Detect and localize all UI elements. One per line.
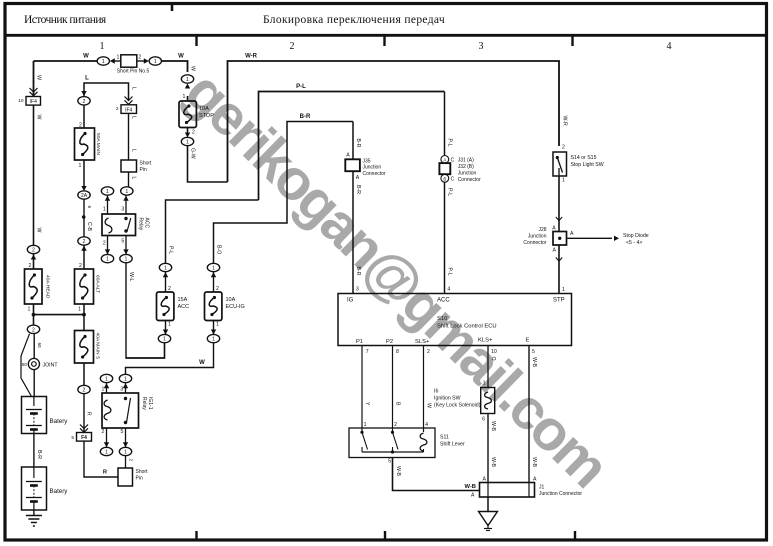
- wire SLS+ to shift lever: [423, 346, 425, 429]
- svg-text:1: 1: [364, 422, 367, 428]
- svg-text:1: 1: [102, 59, 105, 65]
- node oval 1 left of Short Pin No.5: [97, 57, 109, 65]
- column tick a: [195, 37, 197, 47]
- svg-text:W-R: W-R: [245, 54, 258, 60]
- wire oval2 to JOINT: [33, 334, 35, 397]
- svg-text:P-L: P-L: [447, 188, 453, 196]
- svg-text:L: L: [85, 76, 89, 82]
- svg-text:7: 7: [366, 349, 369, 355]
- svg-text:40A HEAD: 40A HEAD: [45, 275, 51, 299]
- svg-text:10: 10: [18, 98, 24, 104]
- node oval 2 above JOINT: [27, 325, 39, 333]
- wire W from ECU-IG fuse to IG1-1: [126, 343, 214, 375]
- fuse IF4 second: [121, 105, 137, 114]
- wire P-L to 15A ACC: [166, 200, 259, 263]
- svg-text:Pin: Pin: [140, 167, 147, 173]
- wire and arrow into oval above 10A STOP: [187, 96, 189, 101]
- svg-text:STOP: STOP: [199, 113, 214, 119]
- bottom tick b: [384, 531, 386, 541]
- svg-text:1: 1: [212, 266, 215, 272]
- svg-text:1: 1: [100, 41, 105, 52]
- node oval 1 above ACC relay pin 3: [121, 187, 133, 195]
- svg-text:O: O: [490, 357, 496, 361]
- pin 2 above 40A HEAD: [33, 254, 35, 269]
- fusible link 50A MAIN: [75, 128, 95, 160]
- svg-text:1: 1: [483, 381, 486, 387]
- short pin box lower: [118, 468, 133, 486]
- svg-text:3: 3: [121, 207, 124, 213]
- svg-text:4: 4: [425, 422, 428, 428]
- svg-text:P1: P1: [356, 339, 363, 345]
- svg-text:8: 8: [396, 349, 399, 355]
- svg-text:<5 - 4>: <5 - 4>: [626, 240, 642, 246]
- svg-text:1: 1: [183, 94, 186, 100]
- node oval 1 above IG1-1 pin 1: [100, 374, 112, 382]
- svg-text:2: 2: [32, 248, 35, 254]
- bottom tick c: [574, 531, 576, 541]
- svg-text:J31 (A): J31 (A): [458, 158, 474, 164]
- svg-text:W-B: W-B: [531, 457, 537, 468]
- svg-text:1: 1: [103, 207, 106, 213]
- relay ACC bottom pins: [107, 236, 109, 255]
- svg-text:J32 (B): J32 (B): [458, 164, 474, 170]
- wire E to J1: [528, 346, 530, 483]
- svg-text:2: 2: [394, 422, 397, 428]
- wire 40A HEAD to junction: [33, 304, 35, 315]
- svg-text:1: 1: [164, 266, 167, 272]
- svg-text:1: 1: [79, 163, 82, 169]
- node oval 2 above 60A ALT: [78, 237, 90, 245]
- svg-text:2: 2: [83, 239, 86, 245]
- node oval 2 above 40A HEAD: [27, 245, 39, 253]
- wire B-R between batteries: [33, 434, 35, 468]
- wire W-L from relay to 15A ACC: [126, 263, 165, 358]
- wire W IF4 to oval 2: [33, 105, 35, 245]
- svg-text:ECU-IG: ECU-IG: [226, 304, 245, 310]
- svg-text:Connector: Connector: [523, 240, 546, 246]
- svg-text:Блокировка переключения переда: Блокировка переключения передач: [263, 14, 445, 26]
- wire P1 to shift lever: [361, 346, 363, 429]
- svg-text:W-R: W-R: [562, 116, 568, 127]
- wire 40A MAIN S to oval 2: [83, 363, 85, 385]
- svg-text:1: 1: [562, 178, 565, 184]
- wire J35 to ECU IG pin: [352, 172, 354, 294]
- fuse IF4 left: [26, 97, 41, 106]
- svg-text:B-R: B-R: [355, 139, 361, 148]
- svg-text:Shift Lever: Shift Lever: [440, 442, 465, 448]
- svg-text:5: 5: [71, 435, 74, 441]
- svg-text:Junction Connector: Junction Connector: [539, 491, 582, 497]
- svg-text:Junction: Junction: [528, 234, 547, 240]
- header separator line: [4, 34, 767, 37]
- arrow into right oval: [137, 60, 144, 62]
- svg-text:Short: Short: [140, 161, 153, 167]
- node oval 1 below IG1-1 pin 5: [119, 447, 131, 455]
- svg-text:Источник питания: Источник питания: [24, 14, 107, 26]
- svg-text:F4: F4: [81, 435, 87, 441]
- svg-text:2: 2: [29, 263, 32, 269]
- node oval 1 below ACC relay pin 5: [120, 254, 132, 262]
- svg-text:B-R: B-R: [355, 267, 361, 276]
- wire W-B shift lever to J1: [393, 458, 480, 491]
- wire 10A STOP loop to W-R riser: [188, 146, 228, 182]
- svg-text:ACC: ACC: [437, 298, 450, 304]
- svg-text:W-L: W-L: [128, 272, 134, 282]
- svg-text:Ignition SW: Ignition SW: [434, 396, 461, 402]
- svg-text:W-B: W-B: [490, 457, 496, 468]
- svg-text:Connector: Connector: [363, 171, 386, 177]
- svg-text:1: 1: [102, 387, 105, 393]
- bottom tick a: [195, 531, 197, 541]
- svg-text:JOINT: JOINT: [43, 362, 59, 368]
- svg-text:P-L: P-L: [296, 84, 306, 90]
- svg-text:KLS+: KLS+: [478, 338, 493, 344]
- svg-text:2: 2: [562, 145, 565, 151]
- wire junction to 40A MAIN S: [83, 315, 85, 331]
- node oval 1 below 10A STOP: [181, 137, 193, 145]
- fusible link 40A MAIN S: [75, 331, 94, 364]
- svg-text:5: 5: [532, 349, 535, 355]
- svg-text:1: 1: [78, 307, 81, 313]
- short pin No.5 S box: [115, 60, 121, 62]
- wire 60A ALT to junction bus: [83, 304, 85, 315]
- svg-text:1: 1: [28, 307, 31, 313]
- wire W-R riser and top horizontal: [228, 61, 560, 182]
- switch S14 or S15 Stop Light SW: [553, 152, 567, 176]
- svg-text:6: 6: [87, 206, 92, 209]
- svg-text:1: 1: [154, 59, 157, 65]
- svg-text:P-L: P-L: [447, 268, 453, 276]
- junction bus horizontal: [34, 314, 85, 316]
- svg-text:1: 1: [106, 257, 109, 263]
- node oval 2 above 50A MAIN: [78, 97, 90, 105]
- svg-text:2: 2: [192, 130, 195, 136]
- svg-text:1: 1: [125, 257, 128, 263]
- svg-text:1: 1: [105, 450, 108, 456]
- wire with junction dot and C-B label: [83, 199, 85, 237]
- wire oval to F4 with chevron: [83, 394, 85, 433]
- svg-text:S14 or S15: S14 or S15: [571, 155, 597, 161]
- wire oval to lower Short Pin: [125, 456, 127, 468]
- wire stop light SW to J28: [558, 176, 560, 232]
- fusible link 60A ALT: [75, 269, 94, 304]
- column tick b: [383, 37, 385, 47]
- svg-text:P-L: P-L: [447, 139, 453, 147]
- svg-text:Batery: Batery: [50, 488, 69, 495]
- svg-text:1: 1: [125, 189, 128, 195]
- svg-text:(Key Lock Solenoid): (Key Lock Solenoid): [434, 403, 481, 409]
- svg-text:1: 1: [216, 322, 219, 328]
- svg-text:5: 5: [121, 429, 124, 435]
- svg-text:B-O: B-O: [215, 245, 221, 254]
- arrow into oval below 10A STOP: [187, 128, 189, 134]
- svg-text:2: 2: [138, 55, 141, 61]
- node oval 1 right of Short Pin No.5: [149, 57, 161, 65]
- svg-text:W: W: [83, 54, 89, 60]
- wire L IF4 to Short Pin: [128, 113, 130, 160]
- fusible link 40A HEAD: [25, 269, 43, 304]
- svg-text:40A MAIN S: 40A MAIN S: [95, 333, 101, 360]
- pin 2 above 50A MAIN: [83, 105, 85, 128]
- IG1-1 coil: [104, 400, 111, 420]
- svg-text:Shift Lock Control ECU: Shift Lock Control ECU: [437, 324, 497, 330]
- relay IG1-1 box: [102, 393, 139, 428]
- svg-text:10A: 10A: [199, 106, 209, 112]
- svg-text:E: E: [526, 338, 530, 344]
- svg-text:Relay: Relay: [138, 218, 144, 231]
- svg-text:2: 2: [102, 429, 105, 435]
- svg-text:W: W: [178, 54, 184, 60]
- svg-text:W-B: W-B: [490, 421, 496, 432]
- wire B-R riser from ECU-IG fuse: [214, 122, 354, 264]
- svg-text:50A MAIN: 50A MAIN: [95, 133, 101, 155]
- svg-text:L: L: [130, 116, 136, 119]
- ACC relay switch: [124, 217, 127, 220]
- svg-text:A: A: [443, 157, 446, 162]
- wire to stop diode with arrow: [567, 237, 613, 239]
- arrow into IF4 no2: [128, 97, 130, 100]
- svg-text:IG: IG: [347, 298, 354, 304]
- wire KLS+ to ignition switch: [487, 346, 489, 388]
- switch S11 Shift Lever box: [349, 428, 435, 458]
- arrow into oval below 15A ACC: [165, 321, 167, 335]
- svg-text:1: 1: [186, 140, 189, 146]
- svg-text:ACC: ACC: [178, 304, 190, 310]
- junction connector J35: [345, 159, 360, 171]
- svg-text:60A ALT: 60A ALT: [95, 275, 101, 293]
- top border tick: [171, 2, 174, 11]
- wire short pin to oval: [128, 172, 130, 187]
- junction connector J28: [553, 232, 567, 246]
- svg-text:B: B: [394, 402, 400, 406]
- joint connector JOINT: [28, 358, 39, 369]
- wire 15A ACC to W-L horizontal: [126, 343, 165, 358]
- svg-text:Short: Short: [136, 469, 149, 475]
- wire L top loop: [84, 83, 129, 97]
- svg-text:2: 2: [83, 388, 86, 394]
- pin 2 above 15A ACC: [165, 272, 167, 292]
- svg-text:J35: J35: [363, 159, 371, 165]
- node oval 2 above F4: [78, 385, 90, 393]
- svg-text:2: 2: [32, 327, 35, 333]
- svg-text:2: 2: [216, 286, 219, 292]
- node oval 1 below IG1-1 pin 2: [100, 447, 112, 455]
- svg-text:W-B: W-B: [465, 484, 476, 490]
- svg-text:B-R: B-R: [355, 185, 361, 194]
- svg-text:J1: J1: [539, 485, 545, 491]
- svg-text:L: L: [130, 87, 136, 90]
- svg-text:W-B: W-B: [531, 357, 537, 368]
- svg-text:W: W: [36, 228, 42, 233]
- node oval 1 below ACC relay pin 2: [101, 254, 113, 262]
- node oval 1 above 10A STOP: [181, 75, 193, 83]
- wire P-L horizontal: [259, 92, 445, 201]
- svg-text:B-R: B-R: [36, 450, 42, 459]
- junction connector J31 J32 circles: [441, 156, 449, 164]
- wire W to 10A STOP drop: [162, 61, 188, 72]
- svg-text:A: A: [533, 477, 537, 483]
- shift lever switch P1: [361, 428, 363, 432]
- svg-text:Junction: Junction: [363, 165, 382, 171]
- svg-text:1: 1: [117, 55, 120, 61]
- svg-text:IF4: IF4: [30, 99, 37, 105]
- wire B-R from corner down to J35: [352, 122, 354, 160]
- ECU S10 Shift Lock Control ECU box: [338, 294, 572, 346]
- wire J1 to ground: [487, 497, 489, 512]
- shift lever switch P2: [392, 428, 394, 432]
- node oval 1 above ACC relay pin 1: [101, 187, 113, 195]
- wire junction to oval 2: [33, 315, 35, 326]
- svg-text:1: 1: [124, 450, 127, 456]
- arrow into oval below ECU-IG fuse: [213, 321, 215, 335]
- svg-text:60: 60: [37, 343, 42, 349]
- node oval 1 below ECU-IG fuse: [207, 334, 219, 342]
- wire W top-left horizontal: [34, 60, 98, 62]
- node oval 1 below 15A ACC: [158, 334, 170, 342]
- svg-text:W: W: [36, 115, 42, 120]
- fuse F4: [77, 433, 92, 442]
- svg-text:SLS+: SLS+: [415, 339, 430, 345]
- svg-text:A: A: [356, 175, 360, 181]
- svg-text:C: C: [451, 176, 455, 182]
- svg-text:2: 2: [83, 99, 86, 105]
- svg-text:1: 1: [105, 377, 108, 383]
- ground symbol: [479, 512, 498, 526]
- wire J28 to ECU STP pin: [558, 245, 560, 294]
- svg-text:2: 2: [427, 349, 430, 355]
- svg-text:5: 5: [388, 459, 391, 465]
- svg-text:A: A: [483, 477, 487, 483]
- svg-text:W-B: W-B: [395, 466, 401, 477]
- svg-text:P-L: P-L: [167, 246, 173, 254]
- arrows into relay top ovals: [107, 195, 109, 214]
- diagonal wire battery to oval 2: [21, 334, 32, 397]
- svg-text:A: A: [552, 226, 556, 232]
- svg-text:Stop Diode: Stop Diode: [623, 233, 649, 239]
- svg-text:2: 2: [128, 459, 133, 462]
- svg-text:A: A: [346, 153, 350, 159]
- wire W-B solenoid to J1: [487, 414, 489, 483]
- pin 2 above ECU-IG fuse: [213, 272, 215, 292]
- short pin box: [121, 160, 137, 172]
- svg-text:Pin: Pin: [136, 476, 143, 482]
- svg-text:5: 5: [121, 239, 124, 245]
- node oval 1 above 15A ACC: [159, 263, 171, 271]
- fuse 15A ACC: [157, 292, 174, 321]
- svg-text:1: 1: [168, 322, 171, 328]
- svg-text:STP: STP: [553, 298, 565, 304]
- column tick c: [571, 37, 573, 47]
- svg-text:B: B: [443, 176, 446, 181]
- wire W down to IF4: [33, 92, 35, 97]
- junction connector J1: [480, 483, 535, 498]
- fuse 10A ECU-IG: [205, 292, 222, 321]
- svg-text:W: W: [425, 403, 431, 408]
- node oval 2A: [78, 191, 90, 199]
- svg-text:6: 6: [482, 417, 485, 423]
- svg-text:1: 1: [124, 377, 127, 383]
- node oval 1 above IG1-1 pin 3: [119, 374, 131, 382]
- svg-text:60: 60: [22, 362, 28, 367]
- svg-text:Junction: Junction: [458, 171, 477, 177]
- svg-text:R: R: [86, 412, 92, 416]
- svg-text:A: A: [570, 231, 574, 237]
- svg-text:3: 3: [479, 41, 484, 52]
- relay ACC Relay box: [102, 214, 136, 236]
- svg-text:2: 2: [79, 263, 82, 269]
- svg-text:1: 1: [212, 337, 215, 343]
- wire R from F4 to Short Pin: [84, 441, 118, 477]
- svg-text:1: 1: [562, 287, 565, 293]
- svg-text:L: L: [130, 149, 136, 152]
- svg-text:Y: Y: [364, 402, 370, 406]
- ground below battery: [33, 510, 35, 516]
- svg-text:Relay: Relay: [141, 397, 147, 410]
- svg-text:2: 2: [168, 286, 171, 292]
- svg-text:Batery: Batery: [50, 418, 69, 425]
- IG1-1 switch: [124, 397, 127, 400]
- shift lever internal rail: [362, 451, 424, 453]
- svg-text:B-R: B-R: [300, 114, 311, 120]
- svg-text:1: 1: [163, 337, 166, 343]
- arrows into IG1-1 from ovals: [106, 383, 108, 393]
- wire J32 to ECU ACC pin: [444, 182, 446, 293]
- fuse 10A STOP: [179, 101, 196, 128]
- svg-text:Short Pin No.5: Short Pin No.5: [117, 69, 150, 75]
- svg-text:P2: P2: [386, 339, 393, 345]
- wire corner down left column: [33, 61, 35, 92]
- svg-text:W: W: [189, 66, 195, 71]
- pin 2 above 60A ALT: [83, 245, 85, 269]
- svg-text:10A: 10A: [226, 297, 236, 303]
- wire 50A MAIN to oval 2A: [83, 160, 85, 187]
- svg-text:S10: S10: [437, 316, 447, 322]
- IG1-1 bottom pins: [106, 428, 108, 447]
- battery lower: [22, 467, 47, 510]
- ACC relay coil: [105, 218, 112, 233]
- svg-text:3: 3: [120, 387, 123, 393]
- svg-text:W: W: [199, 360, 205, 366]
- svg-text:A: A: [553, 248, 557, 254]
- wire P2 to shift lever: [392, 346, 394, 429]
- svg-text:2A: 2A: [81, 193, 88, 199]
- wire P-L down to J31: [444, 92, 446, 156]
- svg-text:IF4: IF4: [125, 108, 132, 114]
- arrow into oval 2 above 50A MAIN: [81, 91, 86, 96]
- svg-text:1: 1: [186, 77, 189, 83]
- svg-text:1: 1: [106, 189, 109, 195]
- svg-text:3: 3: [356, 287, 359, 293]
- svg-text:L: L: [130, 177, 136, 180]
- svg-text:I6: I6: [434, 389, 438, 395]
- svg-text:Stop Light SW: Stop Light SW: [571, 162, 604, 168]
- svg-text:2: 2: [290, 41, 295, 52]
- svg-text:Connector: Connector: [458, 177, 481, 183]
- svg-text:4: 4: [667, 41, 672, 52]
- battery upper: [22, 397, 47, 434]
- svg-text:10: 10: [491, 349, 497, 355]
- svg-text:4: 4: [447, 287, 450, 293]
- switch I6 Ignition SW Key Lock Solenoid: [481, 388, 495, 414]
- svg-text:C-B: C-B: [86, 222, 92, 231]
- node oval 1 above ECU-IG fuse: [207, 263, 219, 271]
- svg-text:2: 2: [116, 106, 119, 112]
- svg-text:2: 2: [103, 241, 106, 247]
- svg-text:S11: S11: [440, 435, 449, 441]
- shift lever coil SLS: [423, 428, 425, 432]
- svg-text:15A: 15A: [178, 297, 188, 303]
- svg-text:J28: J28: [538, 227, 546, 233]
